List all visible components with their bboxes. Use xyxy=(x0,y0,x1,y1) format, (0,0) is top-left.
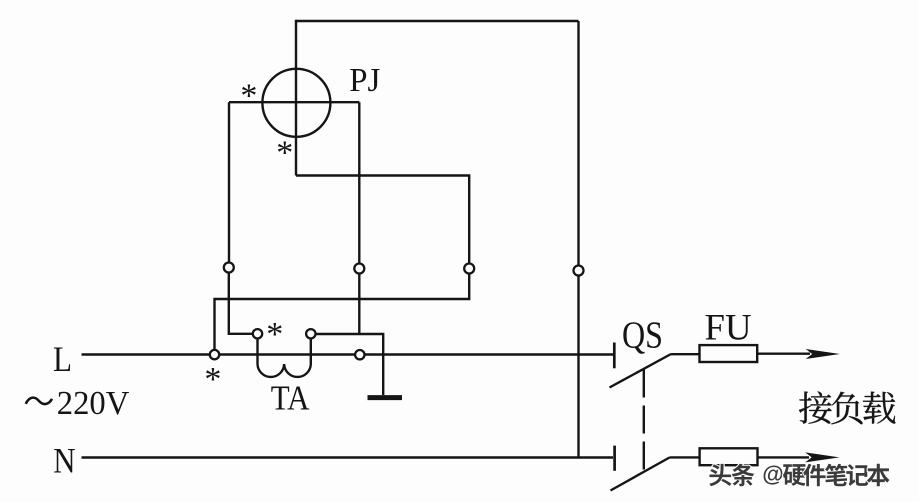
TA secondary winding xyxy=(258,338,311,377)
switch QS upper blade xyxy=(610,354,672,388)
svg-text:@: @ xyxy=(762,462,783,487)
ground bar xyxy=(368,395,403,400)
fuse FU lower body xyxy=(700,448,758,465)
switch QS lower fixed contact xyxy=(613,446,616,471)
terminal 1 xyxy=(224,263,234,273)
wire blade to fuse FU upper xyxy=(671,353,700,355)
svg-text:220V: 220V xyxy=(57,385,130,422)
wire current coil left down to terminal 1 xyxy=(228,102,230,262)
wire L line xyxy=(82,353,614,355)
wire vertical through meter PJ voltage lead xyxy=(295,20,297,176)
svg-text:QS: QS xyxy=(622,315,663,357)
wire fuse to load upper xyxy=(757,353,810,355)
label 接负载 connect-to-load xyxy=(799,391,895,424)
svg-text:*: * xyxy=(240,78,257,115)
tilde of ~220V xyxy=(26,398,52,404)
TA secondary right terminal xyxy=(306,329,315,338)
wire terminal 4 to N line xyxy=(577,276,579,458)
terminal 4 xyxy=(574,266,584,276)
svg-text:N: N xyxy=(53,440,75,480)
wire terminal 3 down, left, down to L line tap xyxy=(215,274,470,351)
svg-text:*: * xyxy=(276,135,293,172)
wire terminal 1 down then right to TA secondary left xyxy=(229,273,253,334)
svg-text:PJ: PJ xyxy=(349,62,380,99)
arrow head upper xyxy=(806,349,840,359)
wire voltage lead bottom right then down to terminal 3 xyxy=(296,176,469,264)
wire horizontal through meter PJ current coil xyxy=(229,101,359,103)
wire N line xyxy=(82,456,614,458)
wire top horizontal (voltage tap to right riser) xyxy=(296,20,579,22)
svg-text:L: L xyxy=(53,339,72,379)
svg-text:TA: TA xyxy=(271,379,310,417)
node circle on L line right xyxy=(355,350,364,359)
terminal 3 xyxy=(464,264,474,274)
svg-text:FU: FU xyxy=(705,307,752,348)
wire terminal 2 down to common wire xyxy=(358,274,360,335)
switch linkage dashed xyxy=(643,370,645,471)
svg-text:*: * xyxy=(204,361,221,398)
watermark 头条@硬件笔记本 xyxy=(709,462,889,487)
switch QS upper fixed contact xyxy=(613,343,616,369)
TA secondary left terminal xyxy=(253,329,262,338)
wire current coil right down to terminal 2 xyxy=(358,102,360,263)
wire fuse to load lower xyxy=(758,456,810,458)
wire blade to fuse FU lower xyxy=(670,456,700,458)
terminal 2 xyxy=(354,264,364,274)
arrow head lower xyxy=(805,452,839,462)
switch QS lower blade xyxy=(611,458,670,491)
node circle on L line left tap xyxy=(210,350,219,359)
wire top right riser down to terminal 4 xyxy=(577,21,579,265)
meter PJ circle xyxy=(262,69,330,137)
wire TA secondary right to ground stem xyxy=(315,334,383,395)
fuse FU upper body xyxy=(700,345,758,362)
svg-text:*: * xyxy=(266,316,283,353)
